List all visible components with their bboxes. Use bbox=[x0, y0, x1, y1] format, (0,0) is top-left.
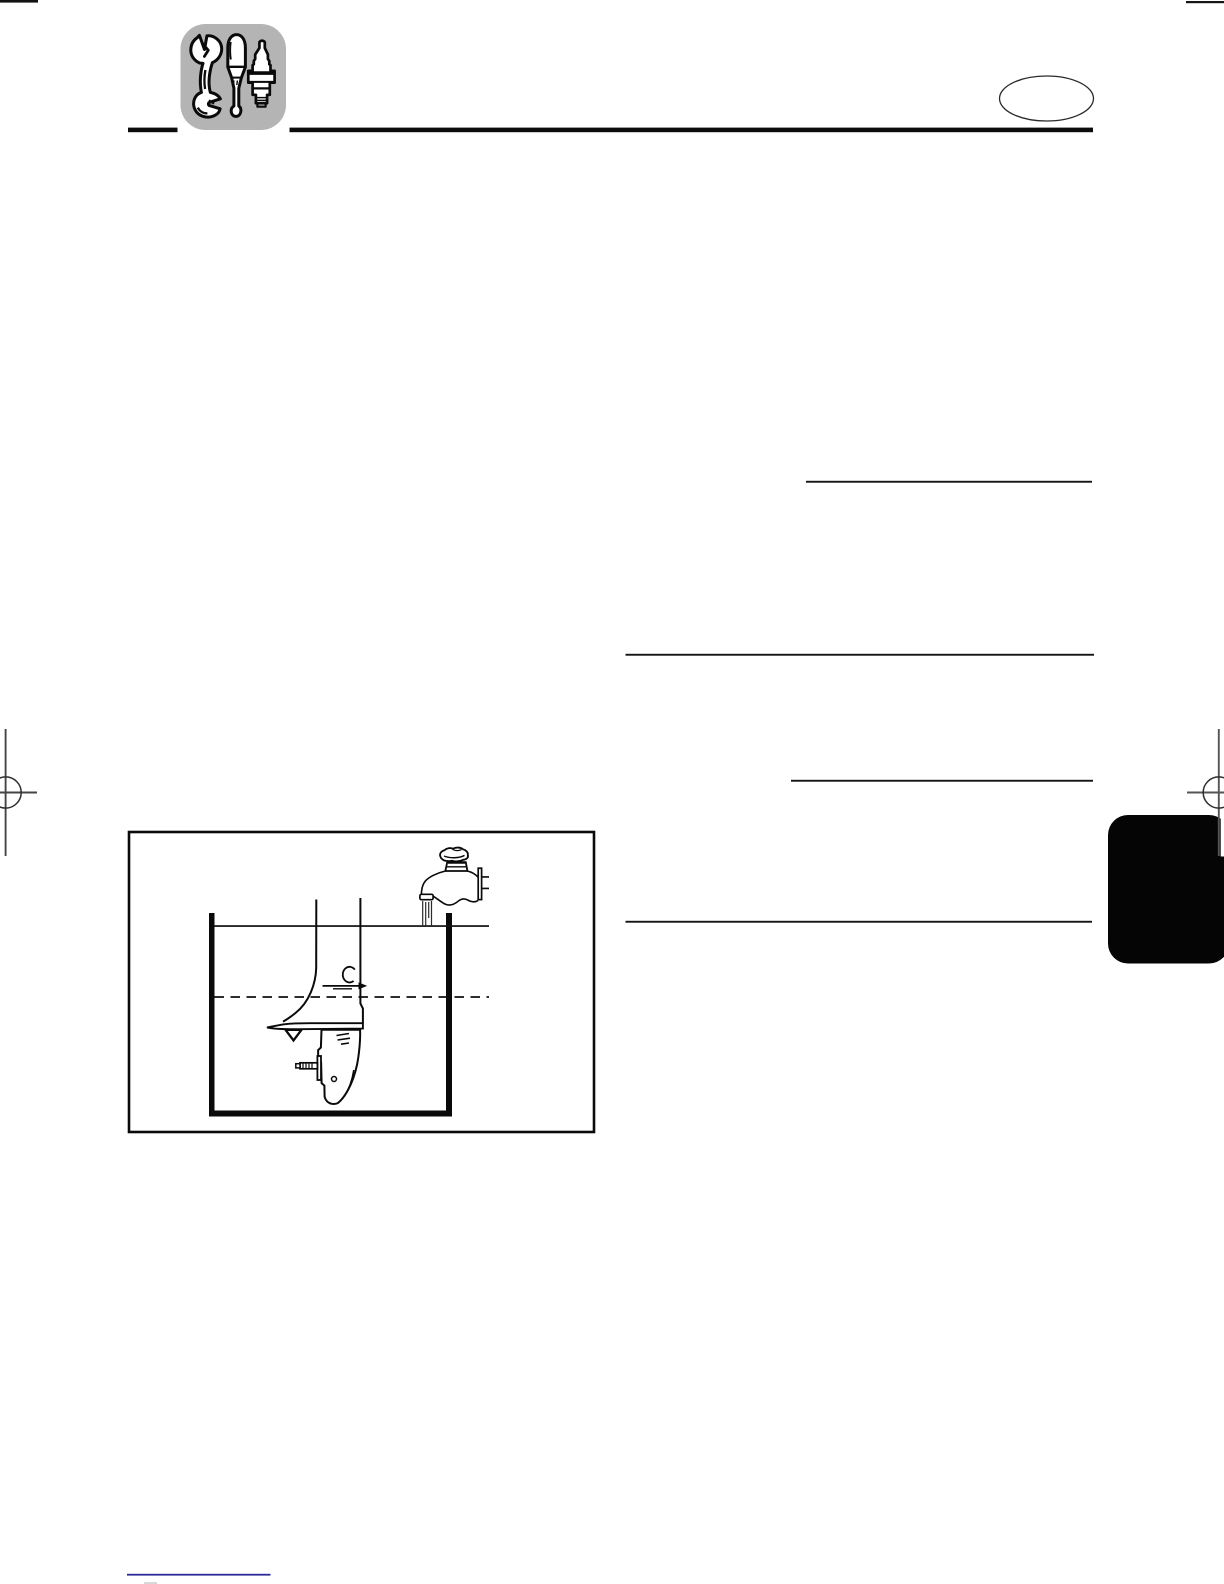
propeller shaft bbox=[300, 1063, 317, 1069]
propeller shaft tip bbox=[296, 1064, 300, 1068]
icon tool: wrench bbox=[191, 35, 222, 117]
upper casing right edge bbox=[360, 898, 363, 1023]
faucet wall flange bbox=[478, 868, 481, 899]
chapter icon: gray rounded square bbox=[181, 24, 287, 130]
tank left wall bbox=[209, 913, 215, 1113]
gear case inner curve bbox=[344, 1070, 354, 1097]
propeller shaft flange bbox=[317, 1056, 321, 1080]
header rule left segment bbox=[128, 128, 178, 133]
icon tool: spark plug bbox=[248, 41, 274, 107]
blank rule 3 bbox=[791, 780, 1093, 782]
footer blue rule bbox=[127, 1574, 271, 1576]
left registration mark bbox=[0, 729, 37, 856]
top-right crop bar bbox=[1186, 1, 1224, 3]
water stream bbox=[423, 901, 432, 926]
blank rule 2 bbox=[626, 654, 1095, 656]
upper casing left edge bbox=[283, 900, 316, 1022]
propeller shaft splines bbox=[303, 1063, 312, 1069]
tank right wall bbox=[446, 913, 452, 1113]
figure: faucet bbox=[420, 848, 489, 926]
anti-cavitation plate bbox=[267, 1023, 363, 1029]
skeg fin triangle bbox=[286, 1030, 302, 1041]
blank rule 1 bbox=[806, 481, 1092, 483]
gear case bbox=[318, 1030, 360, 1104]
drain screw circle bbox=[332, 1077, 337, 1082]
faucet spout mouth bbox=[420, 894, 433, 899]
scan gap sliver at page edge bbox=[1221, 815, 1224, 857]
right registration mark bbox=[1187, 729, 1224, 856]
figure frame bbox=[129, 832, 594, 1132]
blank rule 4 bbox=[626, 921, 1093, 923]
flush direction arrow bbox=[323, 985, 360, 987]
section thumb tab bbox=[1108, 815, 1224, 964]
rotation direction mark bbox=[343, 967, 355, 983]
figure: outboard lower unit bbox=[267, 898, 367, 1104]
tank bottom bbox=[209, 1111, 452, 1117]
faucet bonnet nut bbox=[445, 862, 467, 871]
water surface line bbox=[215, 925, 490, 927]
faucet body and spout bbox=[421, 871, 445, 894]
minimum water level dashed line bbox=[215, 996, 490, 998]
header oval (empty page-number balloon) bbox=[1000, 76, 1094, 121]
footer cut-off text remnant bbox=[144, 1582, 157, 1584]
gear case hatch marks bbox=[337, 1034, 351, 1045]
figure: flush test tank bbox=[209, 913, 489, 1117]
icon tool: screwdriver bbox=[228, 35, 246, 117]
header rule main segment bbox=[290, 128, 1094, 133]
faucet handle bbox=[440, 848, 468, 862]
top-left crop bar bbox=[0, 0, 38, 3]
